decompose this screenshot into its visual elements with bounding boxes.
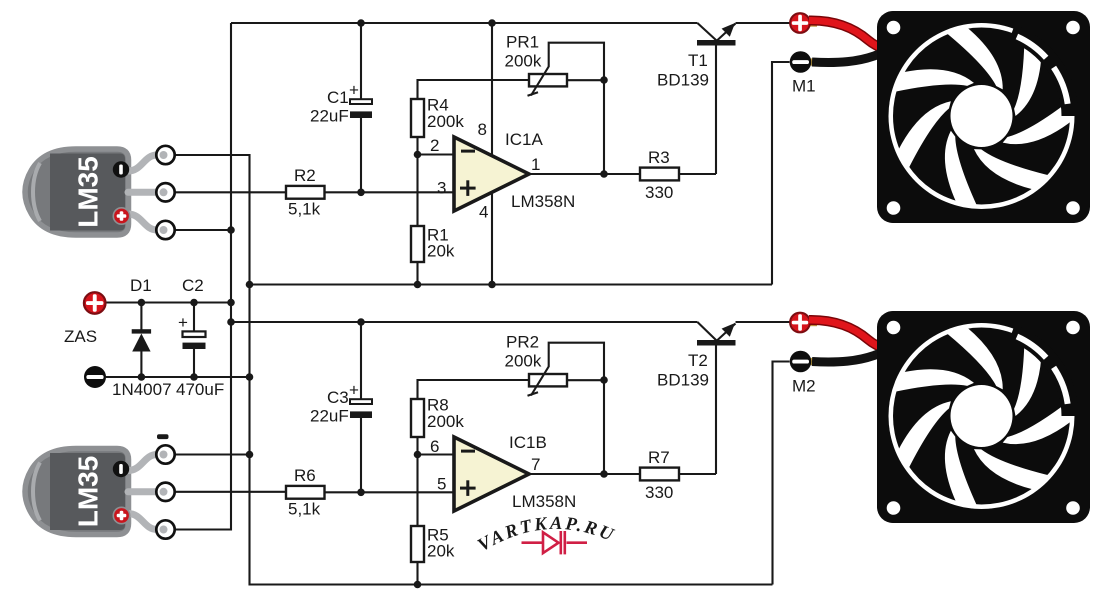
svg-text:C3: C3 xyxy=(327,388,349,407)
svg-text:+: + xyxy=(349,381,359,400)
node R1 ground junction xyxy=(414,281,422,289)
svg-text:22uF: 22uF xyxy=(310,107,349,126)
wire ground bus left xyxy=(176,155,773,585)
wire R7 to T2 base xyxy=(679,346,716,475)
svg-text:330: 330 xyxy=(645,483,673,502)
wire top channel ground rail xyxy=(250,283,773,285)
terminal M2 plus xyxy=(808,319,817,326)
svg-text:M1: M1 xyxy=(792,77,816,96)
resistor R1 xyxy=(411,226,424,262)
svg-text:IC1A: IC1A xyxy=(505,130,543,149)
wire LM35-1 plus to bus xyxy=(175,229,231,231)
svg-text:C2: C2 xyxy=(182,276,204,295)
node pin2 junction xyxy=(414,151,422,159)
resistor R5 xyxy=(411,526,424,562)
wire R3 to T1 base xyxy=(679,46,716,175)
wire pin6 xyxy=(418,453,455,455)
node junction dots top rail xyxy=(357,19,365,27)
svg-text:BD139: BD139 xyxy=(657,371,709,390)
wire +V bus left xyxy=(176,23,231,530)
svg-text:IC1B: IC1B xyxy=(509,433,547,452)
wire R8 top to PR2 left xyxy=(418,380,530,399)
potentiometer PR2 xyxy=(529,374,567,386)
svg-text:M2: M2 xyxy=(792,377,816,396)
op-amp IC1A xyxy=(454,137,529,211)
svg-text:ZAS: ZAS xyxy=(64,327,97,346)
transistor T1 BD139 xyxy=(697,40,736,46)
node PR1 wiper junction xyxy=(600,76,608,84)
svg-text:330: 330 xyxy=(645,183,673,202)
capacitor C1 xyxy=(360,23,362,192)
svg-text:C1: C1 xyxy=(327,88,349,107)
svg-text:BD139: BD139 xyxy=(657,71,709,90)
node output junction xyxy=(600,170,608,178)
svg-text:7: 7 xyxy=(531,455,540,474)
wire M2 minus to ground rail xyxy=(773,362,790,585)
wire +V top rail xyxy=(231,22,790,24)
svg-text:LM358N: LM358N xyxy=(512,492,576,511)
label minus above LM35-2 top terminal xyxy=(157,434,169,439)
capacitor C2 470uF xyxy=(193,303,195,378)
svg-text:1: 1 xyxy=(531,155,540,174)
fan M1 xyxy=(877,11,1090,223)
sensor LM35 top xyxy=(25,146,175,239)
node pin4 ground junction xyxy=(488,281,496,289)
node pin6 junction xyxy=(414,451,422,459)
node junction dots buses xyxy=(227,226,235,234)
svg-text:200k: 200k xyxy=(427,112,464,131)
fan M2 xyxy=(877,311,1090,523)
svg-text:R6: R6 xyxy=(294,466,316,485)
wire ZAS minus rail xyxy=(106,376,250,378)
wire pin2 xyxy=(418,153,455,155)
wire R5 to ground rail xyxy=(416,562,418,585)
svg-text:200k: 200k xyxy=(505,52,542,71)
node output B junction xyxy=(600,470,608,478)
svg-text:R3: R3 xyxy=(648,148,670,167)
capacitor C3 xyxy=(360,322,362,492)
diode D1 1N4007 xyxy=(140,303,142,378)
node C3 junction on pin5 wire xyxy=(357,489,365,497)
wire M1 minus to ground rail xyxy=(772,62,790,285)
svg-text:LM358N: LM358N xyxy=(511,192,575,211)
svg-text:5,1k: 5,1k xyxy=(288,200,321,219)
svg-text:R2: R2 xyxy=(294,166,316,185)
wire R6 to pin5 xyxy=(325,491,455,493)
sensor LM35 bottom xyxy=(25,445,175,538)
svg-text:T2: T2 xyxy=(688,351,708,370)
resistor R3 xyxy=(640,168,679,181)
resistor R6 xyxy=(286,486,325,499)
wire R1 to ground rail xyxy=(416,262,418,285)
op-amp IC1B xyxy=(454,437,529,511)
svg-text:200k: 200k xyxy=(505,352,542,371)
svg-text:8: 8 xyxy=(478,120,487,139)
watermark diode symbol xyxy=(522,531,588,554)
resistor R8 xyxy=(411,399,424,437)
node PR2 wiper junction xyxy=(600,376,608,384)
terminal M1 plus xyxy=(808,20,817,27)
svg-text:PR2: PR2 xyxy=(506,333,539,352)
transistor T2 BD139 xyxy=(697,340,736,346)
resistor R4 xyxy=(411,99,424,137)
wire fan2 red lead xyxy=(809,320,884,349)
svg-text:3: 3 xyxy=(437,179,446,198)
wire output pin1 xyxy=(529,173,640,175)
svg-text:1N4007: 1N4007 xyxy=(112,380,172,399)
svg-text:22uF: 22uF xyxy=(310,407,349,426)
wire ZAS plus rail xyxy=(106,301,232,303)
wire lower +V rail xyxy=(231,321,790,323)
svg-text:D1: D1 xyxy=(130,276,152,295)
node R5 ground junction xyxy=(414,581,422,589)
svg-text:R7: R7 xyxy=(648,448,670,467)
terminal M2 minus xyxy=(810,358,819,365)
svg-text:+: + xyxy=(178,313,188,332)
wire R2 to pin3 xyxy=(325,191,455,193)
node dots power xyxy=(138,299,146,307)
svg-text:T1: T1 xyxy=(688,51,708,70)
node C1 junction on pin3 wire xyxy=(357,189,365,197)
wire inverting node vertical B xyxy=(416,437,418,526)
svg-text:20k: 20k xyxy=(427,542,455,561)
svg-text:4: 4 xyxy=(479,203,488,222)
svg-text:PR1: PR1 xyxy=(506,33,539,52)
terminal ZAS minus xyxy=(84,366,106,388)
wire output pin7 xyxy=(529,473,640,475)
svg-text:5: 5 xyxy=(437,475,446,494)
svg-text:20k: 20k xyxy=(427,242,455,261)
wire R4 top to PR1 left xyxy=(418,80,530,99)
potentiometer PR1 xyxy=(529,74,567,86)
resistor R7 xyxy=(640,468,679,481)
svg-text:470uF: 470uF xyxy=(176,380,224,399)
wire fan1 black lead xyxy=(812,53,882,62)
wire inverting node vertical xyxy=(416,137,418,226)
svg-text:2: 2 xyxy=(430,136,439,155)
wire LM35-1 signal to R2 xyxy=(175,191,286,193)
wire LM35-2 minus terminal to ground bus xyxy=(175,453,250,455)
svg-text:6: 6 xyxy=(430,437,439,456)
terminal M1 minus xyxy=(810,58,819,65)
svg-text:5,1k: 5,1k xyxy=(288,500,321,519)
wire LM35-2 signal to R6 xyxy=(175,491,286,493)
resistor R2 xyxy=(286,186,325,199)
wire fan2 black lead xyxy=(812,353,882,362)
terminal ZAS plus xyxy=(84,292,106,314)
wire fan1 red lead xyxy=(809,20,884,49)
wire power pins 8-4 xyxy=(491,23,493,285)
svg-text:+: + xyxy=(349,81,359,100)
svg-text:200k: 200k xyxy=(427,412,464,431)
